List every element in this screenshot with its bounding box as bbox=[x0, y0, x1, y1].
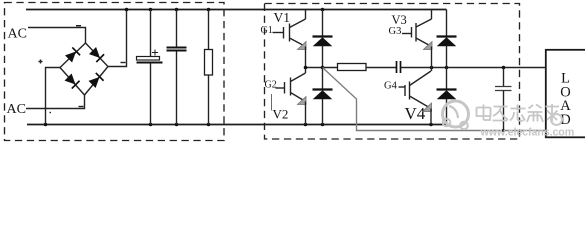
capacitor C3 series bbox=[397, 61, 401, 73]
wire inverter left midpoint bbox=[306, 67, 338, 69]
IGBT V1 bbox=[273, 10, 307, 68]
svg-text:V2: V2 bbox=[273, 107, 289, 122]
bridge diode upper-right bbox=[89, 47, 104, 62]
bridge diode lower-left bbox=[64, 73, 79, 88]
junction dots right midpoint bbox=[430, 66, 506, 70]
freewheel diode of V1 bbox=[313, 10, 333, 68]
wire resistor to capacitor bbox=[366, 67, 396, 69]
svg-text:V3: V3 bbox=[392, 13, 407, 27]
junction dots left midpoint bbox=[304, 66, 325, 70]
IGBT V2 bbox=[276, 68, 307, 125]
wire output to load bbox=[401, 67, 546, 69]
svg-text:AC: AC bbox=[8, 27, 27, 42]
watermark small circle mark bbox=[551, 114, 562, 125]
freewheel diode of V3 bbox=[437, 10, 457, 68]
capacitor C1 electrolytic bbox=[137, 10, 163, 125]
svg-text:www.elecfans.com: www.elecfans.com bbox=[480, 126, 575, 138]
watermark logo circle bbox=[443, 101, 469, 129]
svg-text:V1: V1 bbox=[274, 10, 291, 25]
label LOAD bbox=[560, 71, 571, 129]
wire bridge negative leg bbox=[46, 68, 61, 125]
dashed box rectifier/filter stage bbox=[5, 3, 225, 141]
watermark text dian zi fa shao you bbox=[477, 104, 560, 122]
wire AC top input to bridge bbox=[28, 28, 86, 44]
svg-text:AC: AC bbox=[7, 102, 26, 117]
LOAD box bbox=[546, 50, 585, 138]
junction dots top bus bbox=[125, 8, 325, 12]
junction dots bottom bus bbox=[44, 123, 433, 127]
bridge rectifier diamond bbox=[60, 43, 108, 95]
faint gate return stroke near V2 bbox=[271, 94, 273, 111]
freewheel diode of V4 bbox=[437, 68, 457, 125]
wire top DC bus bbox=[26, 9, 447, 11]
svg-text:V4: V4 bbox=[405, 104, 426, 123]
bridge corner ticks bbox=[39, 26, 126, 113]
gray return wire left midpoint to load bbox=[323, 68, 546, 131]
svg-text:G4: G4 bbox=[384, 81, 398, 92]
svg-text:G2: G2 bbox=[265, 80, 277, 91]
bridge diode upper-left bbox=[65, 47, 80, 62]
freewheel diode of V2 bbox=[313, 68, 333, 125]
IGBT V4 bbox=[399, 68, 432, 125]
capacitor C4 output bbox=[495, 68, 512, 133]
wire AC bottom input to bridge bbox=[26, 95, 85, 109]
wire bridge positive leg bbox=[108, 10, 127, 67]
svg-text:G3: G3 bbox=[389, 26, 402, 37]
bridge diode lower-right bbox=[88, 73, 103, 88]
resistor output filter bbox=[338, 64, 367, 71]
wire bottom DC bus bbox=[27, 124, 447, 126]
capacitor C2 filter bbox=[167, 10, 187, 125]
resistor bleeder bbox=[205, 10, 213, 125]
dashed box inverter stage bbox=[265, 4, 520, 140]
svg-text:G1: G1 bbox=[261, 25, 273, 36]
IGBT V3 bbox=[402, 10, 432, 68]
